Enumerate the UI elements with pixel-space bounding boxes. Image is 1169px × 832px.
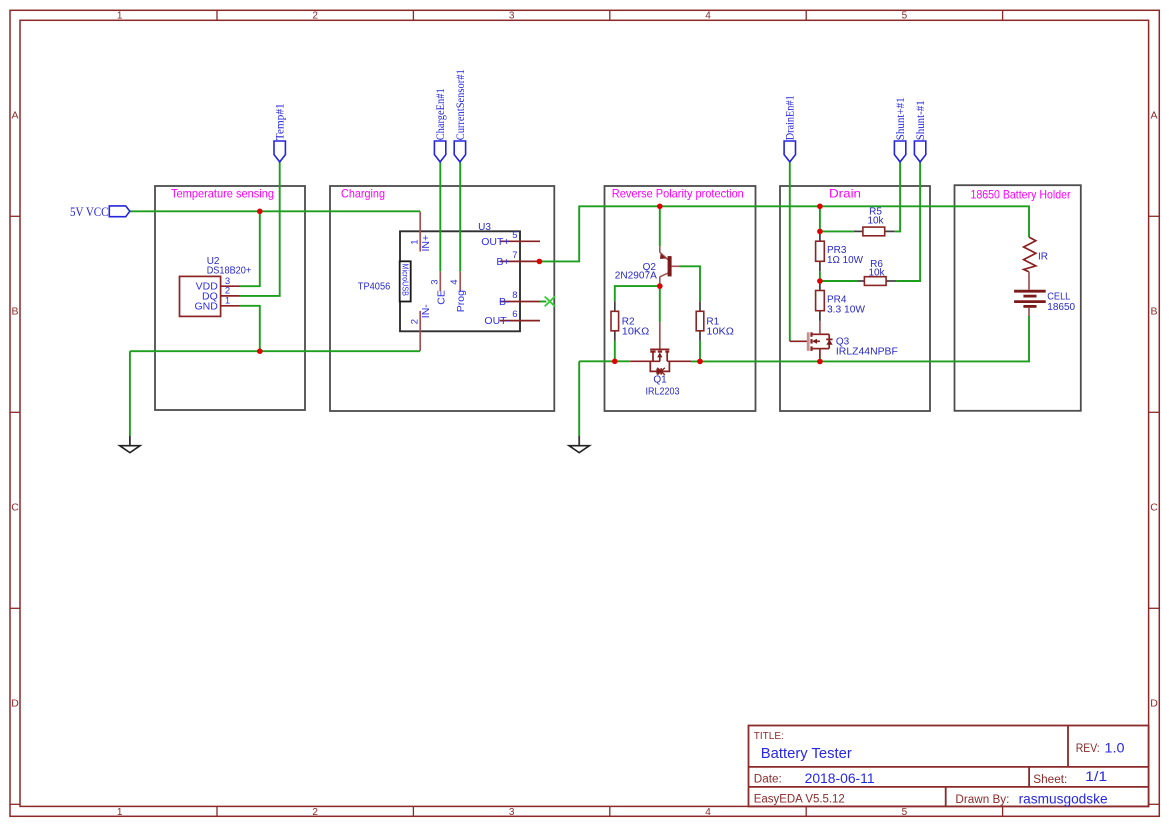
svg-text:OUT-: OUT-: [484, 315, 510, 327]
resistor PR4: [816, 281, 825, 321]
U3 pin 6 OUT-: [500, 320, 540, 322]
Q3 body diode triangle: [826, 340, 832, 345]
net flag Shunt+#1: [894, 97, 907, 162]
Q1 channel arrow: [657, 352, 662, 357]
svg-text:IR: IR: [1038, 251, 1048, 262]
net flag CurrentSensor#1: [454, 69, 467, 162]
svg-text:2: 2: [312, 807, 318, 818]
wire R5 right to Shunt+#1: [895, 162, 900, 231]
svg-text:10k: 10k: [867, 216, 884, 227]
svg-text:2: 2: [312, 11, 318, 22]
svg-text:MicroUSB: MicroUSB: [400, 264, 409, 297]
svg-text:Q1: Q1: [653, 374, 667, 385]
U3 pin 8 B-: [500, 301, 540, 303]
svg-text:OUT+: OUT+: [481, 236, 509, 248]
ground symbol middle: [569, 436, 589, 453]
title block outline: [749, 726, 1149, 807]
svg-text:1.0: 1.0: [1105, 741, 1125, 756]
Q1 body diode triangle: [656, 368, 661, 374]
svg-text:D: D: [1150, 698, 1158, 710]
Q2 emitter arrow: [660, 254, 666, 259]
frame ruler ticks right: [1149, 216, 1160, 804]
svg-text:1: 1: [117, 11, 123, 22]
svg-text:B+: B+: [496, 256, 509, 268]
wire bottom rail reverse box left part: [579, 360, 630, 362]
wire PR3 bottom to node: [819, 271, 821, 281]
svg-text:REV:: REV:: [1076, 743, 1100, 755]
svg-text:10KΩ: 10KΩ: [622, 326, 650, 337]
wire R1 bottom to rail: [699, 341, 701, 362]
frame ruler ticks top: [217, 10, 1003, 20]
svg-text:5: 5: [902, 11, 908, 22]
svg-text:4: 4: [705, 807, 711, 818]
frame row letters right: [1150, 110, 1158, 710]
wire 5V VCC to U3 IN+: [130, 210, 420, 212]
svg-text:DrainEn#1: DrainEn#1: [785, 95, 797, 140]
svg-text:Reverse Polarity protection: Reverse Polarity protection: [612, 188, 744, 201]
U3 pin 1 IN+: [419, 212, 421, 252]
U3 pin 5 OUT+: [500, 240, 540, 242]
svg-text:8: 8: [512, 290, 517, 301]
svg-text:B-: B-: [499, 296, 510, 308]
svg-text:Temperature sensing: Temperature sensing: [171, 188, 274, 201]
wire U2 GND down: [240, 306, 260, 351]
junction node dots: [257, 204, 823, 365]
svg-text:A: A: [11, 110, 18, 122]
svg-text:IRL2203: IRL2203: [646, 386, 680, 397]
group box Drain: [780, 186, 930, 411]
resistor IR (zigzag): [1024, 237, 1036, 272]
svg-text:18650: 18650: [1047, 302, 1075, 313]
svg-text:1: 1: [225, 296, 230, 307]
svg-text:Charging: Charging: [341, 188, 385, 201]
IR lead to battery: [1028, 272, 1030, 290]
frame ruler ticks left: [10, 216, 20, 804]
svg-text:Shunt-#1: Shunt-#1: [915, 100, 927, 140]
net flag Temp#1: [274, 103, 287, 162]
svg-text:DS18B20+: DS18B20+: [207, 266, 252, 277]
svg-text:EasyEDA V5.5.12: EasyEDA V5.5.12: [754, 794, 845, 806]
svg-text:A: A: [1150, 110, 1157, 122]
net flag Shunt-#1: [914, 100, 927, 162]
wire ground drop middle: [578, 361, 580, 436]
op-amp/IC U3 TP4056 body: [400, 231, 520, 331]
group box 18650 Battery Holder: [955, 185, 1081, 411]
svg-text:U3: U3: [478, 222, 491, 233]
wire Q2 emitter from top rail: [659, 206, 661, 246]
wire ChargeEn#1 to CE: [439, 162, 441, 271]
svg-text:10KΩ: 10KΩ: [706, 326, 734, 337]
svg-text:C: C: [1150, 502, 1158, 514]
svg-text:7: 7: [512, 250, 517, 261]
svg-text:5: 5: [512, 230, 517, 241]
svg-text:1: 1: [117, 807, 123, 818]
U3 pin 7 B+: [500, 260, 540, 262]
wire junction to U2 VDD: [240, 211, 260, 286]
battery CELL 18650: [1014, 291, 1046, 306]
U3 right pin names: [481, 236, 510, 327]
resistor R6: [857, 277, 896, 286]
svg-text:2: 2: [410, 319, 421, 324]
svg-text:TP4056: TP4056: [358, 281, 391, 292]
resistor R2: [611, 301, 619, 341]
svg-text:GND: GND: [194, 300, 218, 312]
wire node to R6 left: [820, 280, 858, 282]
frame row letters left: [11, 110, 19, 710]
U2 DS18B20+ body: [180, 276, 221, 316]
U2 pin 3 VDD: [221, 285, 240, 287]
U2 pin 1 GND: [221, 305, 240, 307]
frame column numbers bottom: [117, 807, 908, 818]
svg-text:Prog: Prog: [455, 290, 467, 312]
U2 pin names: [194, 281, 218, 313]
svg-text:6: 6: [512, 309, 517, 320]
svg-text:2018-06-11: 2018-06-11: [805, 771, 875, 786]
U3 pin 4 Prog: [459, 271, 461, 291]
group box Temperature sensing: [155, 186, 305, 410]
wire top rail into drain node: [819, 206, 821, 231]
group box Reverse Polarity protection: [605, 186, 756, 411]
svg-text:IN+: IN+: [420, 235, 432, 252]
Q3 gate arrow: [812, 339, 817, 344]
svg-text:Battery Tester: Battery Tester: [761, 746, 852, 762]
wire B+ to top rail: [539, 206, 1029, 261]
svg-text:2N2907A: 2N2907A: [615, 271, 657, 282]
svg-text:IN-: IN-: [420, 304, 432, 319]
svg-text:4: 4: [705, 11, 711, 22]
resistor R5: [854, 227, 895, 236]
group box Charging: [330, 186, 554, 411]
svg-text:CELL: CELL: [1047, 291, 1070, 302]
svg-text:Date:: Date:: [754, 774, 782, 786]
svg-text:D: D: [11, 698, 19, 710]
svg-text:3.3 10W: 3.3 10W: [827, 305, 866, 316]
svg-text:3: 3: [509, 807, 515, 818]
svg-text:3: 3: [429, 279, 440, 284]
wire bottom rail left (GND): [130, 350, 420, 352]
svg-text:TITLE:: TITLE:: [754, 730, 784, 742]
svg-text:CurrentSensor#1: CurrentSensor#1: [455, 69, 467, 140]
frame ruler ticks bottom: [217, 806, 1003, 816]
resistor R1: [696, 301, 704, 341]
net flag ChargeEn#1: [434, 88, 447, 162]
wire CurrentSensor#1 to Prog: [459, 162, 461, 271]
svg-text:5V VCC: 5V VCC: [70, 204, 109, 219]
net flag 5V VCC: [70, 204, 130, 219]
svg-text:Shunt+#1: Shunt+#1: [895, 97, 907, 140]
svg-text:5: 5: [902, 807, 908, 818]
svg-text:B: B: [1150, 306, 1157, 318]
svg-text:Sheet:: Sheet:: [1033, 774, 1067, 786]
U2 pin 2 DQ: [221, 295, 240, 297]
wire Q3 source to rail: [819, 358, 821, 362]
transistor Q3 IRLZ44NPBF (N-MOSFET): [790, 321, 833, 358]
frame column numbers top: [117, 11, 908, 22]
svg-text:B: B: [11, 306, 18, 318]
svg-text:IRLZ44NPBF: IRLZ44NPBF: [836, 347, 898, 358]
wire ground drop left: [129, 351, 131, 436]
wire U2 DQ to Temp#1: [240, 162, 280, 296]
ground symbol left: [120, 436, 140, 453]
U2 pin numbers: [225, 276, 230, 307]
U3 pin 2 IN-: [419, 311, 421, 351]
battery bottom lead: [1028, 308, 1030, 316]
wire node to R2 top: [615, 286, 660, 301]
svg-text:rasmusgodske: rasmusgodske: [1019, 791, 1108, 807]
svg-text:Drain: Drain: [829, 188, 861, 201]
svg-text:1Ω 10W: 1Ω 10W: [827, 255, 864, 266]
svg-text:C: C: [11, 502, 19, 514]
svg-text:18650 Battery Holder: 18650 Battery Holder: [971, 189, 1071, 202]
svg-text:ChargeEn#1: ChargeEn#1: [435, 88, 447, 140]
svg-text:10k: 10k: [868, 267, 885, 278]
U3 right pin numbers: [512, 230, 517, 320]
wire bottom rail Q1 to battery: [691, 316, 1029, 361]
wire R6 right to Shunt-#1: [896, 162, 920, 281]
U3 pin 3 CE: [439, 271, 441, 291]
svg-text:3: 3: [509, 11, 515, 22]
no-connect X on B-: [545, 297, 555, 307]
wire Q2 base to R1 top: [680, 266, 701, 301]
transistor Q2 2N2907A (PNP): [660, 246, 680, 283]
resistor PR3: [816, 231, 825, 271]
Q2 base bar: [668, 256, 672, 276]
wire node to R5 left: [820, 230, 854, 232]
svg-text:Temp#1: Temp#1: [275, 103, 287, 140]
wire Q2 collector to R2 node: [659, 283, 661, 322]
svg-text:1/1: 1/1: [1085, 769, 1107, 784]
svg-text:CE: CE: [435, 290, 447, 305]
wire R2 bottom to rail: [614, 341, 616, 362]
wire DrainEn#1 to Q3 gate: [789, 162, 791, 341]
wire B- no-connect stub: [540, 301, 546, 303]
transistor Q1 IRL2203 (N-MOSFET rotated): [630, 322, 691, 375]
U3 MicroUSB sub-rectangle: [400, 261, 411, 301]
net flag DrainEn#1: [784, 95, 797, 162]
svg-text:Drawn By:: Drawn By:: [955, 794, 1009, 806]
svg-text:4: 4: [449, 279, 460, 284]
